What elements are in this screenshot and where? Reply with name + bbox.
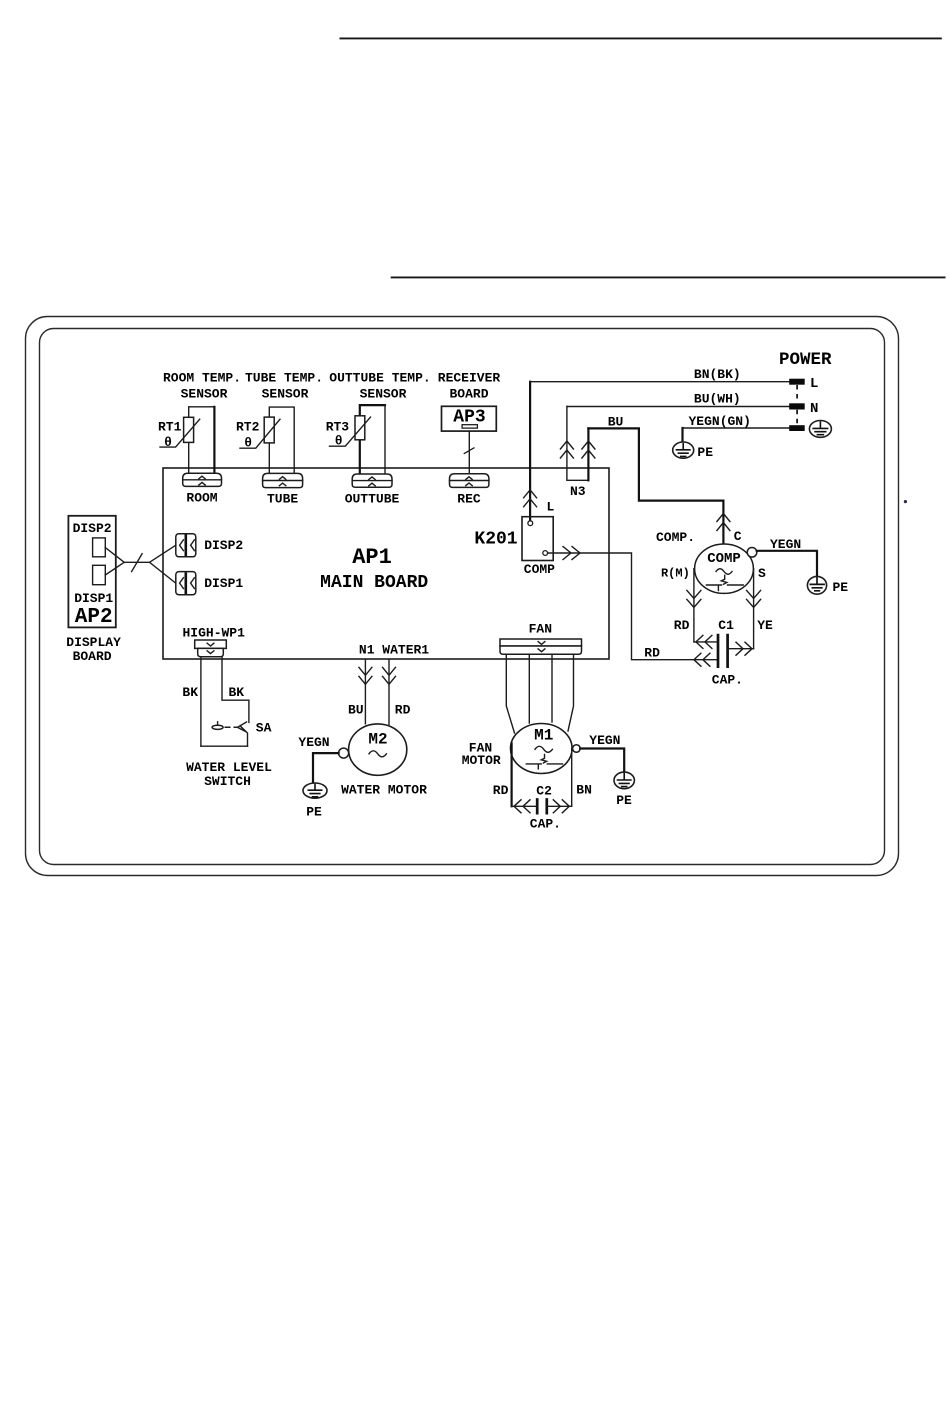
wire loop sensor RT1 (189, 407, 215, 473)
svg-text:C2: C2 (536, 784, 552, 799)
svg-text:BOARD: BOARD (449, 387, 488, 402)
svg-text:C1: C1 (718, 618, 734, 633)
wire loop sensor RT2 (269, 407, 294, 473)
connector ROOM (183, 473, 222, 505)
svg-text:SENSOR: SENSOR (360, 387, 407, 402)
svg-text:MAIN BOARD: MAIN BOARD (320, 573, 428, 593)
label RD compressor leg (674, 618, 690, 633)
connector HIGH-WP1 (182, 626, 245, 657)
wire harness AP2 to mainboard (105, 545, 176, 583)
svg-text:L: L (810, 376, 818, 392)
svg-text:BN(BK): BN(BK) (694, 367, 741, 382)
svg-text:M2: M2 (368, 731, 387, 749)
svg-text:S: S (758, 566, 766, 581)
svg-text:BK: BK (228, 685, 244, 700)
water level switch SA (201, 720, 272, 746)
label FAN MOTOR (462, 741, 501, 769)
main board AP1 outline (163, 468, 609, 659)
svg-text:YE: YE (757, 618, 773, 633)
label YE (757, 618, 773, 633)
svg-text:BN: BN (576, 783, 592, 798)
svg-text:θ: θ (244, 436, 252, 451)
wire BK right from HIGH-WP1 (222, 657, 249, 723)
svg-text:θ: θ (335, 434, 343, 449)
label DISPLAY BOARD (66, 635, 121, 664)
wire BK left from HIGH-WP1 (182, 657, 201, 746)
receiver board AP3 (442, 406, 497, 431)
water motor M2 (339, 724, 407, 775)
svg-text:SENSOR: SENSOR (262, 387, 309, 402)
svg-text:COMP.: COMP. (656, 530, 695, 545)
svg-text:RECEIVER: RECEIVER (438, 371, 501, 386)
label N1 WATER1 (359, 643, 429, 658)
svg-text:PE: PE (697, 445, 713, 460)
svg-text:DISP2: DISP2 (204, 538, 243, 553)
thermistor RT2 (236, 417, 280, 450)
connector DISP2 on board (176, 534, 244, 557)
svg-text:DISP1: DISP1 (74, 591, 113, 606)
capacitor C2 (512, 784, 572, 815)
svg-text:RT2: RT2 (236, 420, 260, 435)
svg-text:FAN: FAN (529, 622, 552, 637)
svg-text:DISP1: DISP1 (204, 576, 243, 591)
wire YEGN fan motor (580, 733, 624, 772)
wire S leg (747, 566, 766, 649)
svg-text:N1 WATER1: N1 WATER1 (359, 643, 429, 658)
capacitor C1 (694, 618, 754, 668)
connector TUBE (263, 473, 303, 506)
wire AP3 to REC (464, 431, 475, 474)
svg-text:AP2: AP2 (75, 606, 113, 629)
svg-text:N3: N3 (570, 484, 586, 499)
svg-text:PE: PE (306, 804, 322, 819)
svg-text:BU: BU (348, 703, 364, 718)
svg-text:YEGN: YEGN (589, 733, 620, 748)
thermistor RT3 (326, 416, 371, 449)
svg-text:C: C (734, 529, 742, 544)
wire BN(BK) (530, 367, 789, 382)
svg-text:BU: BU (608, 415, 624, 430)
display board AP2 (68, 516, 115, 629)
connector DISP1 on board (176, 572, 244, 595)
svg-text:TUBE: TUBE (267, 492, 298, 507)
ground PE fan motor (614, 772, 634, 808)
label ROOM TEMP. SENSOR (163, 371, 241, 402)
stray blue dot (904, 500, 907, 503)
svg-text:SWITCH: SWITCH (204, 774, 251, 789)
svg-text:WATER MOTOR: WATER MOTOR (341, 782, 427, 797)
top rule line 2 (391, 276, 946, 278)
ground PE below YEGN(GN) (673, 428, 713, 460)
svg-text:POWER: POWER (779, 350, 832, 370)
fan motor M1 (511, 724, 581, 774)
svg-text:DISP2: DISP2 (73, 521, 112, 536)
node N3 loop (560, 407, 595, 499)
terminal L (789, 376, 818, 392)
wire N1 to water motor (348, 660, 372, 724)
terminal N (789, 401, 818, 417)
svg-text:RT1: RT1 (158, 420, 182, 435)
ground PE water motor (303, 783, 327, 819)
label C (734, 529, 742, 544)
relay K201 (474, 517, 555, 577)
svg-text:RT3: RT3 (326, 420, 350, 435)
svg-text:YEGN: YEGN (298, 735, 329, 750)
wires FAN to fan motor (506, 654, 573, 733)
svg-text:BOARD: BOARD (73, 649, 112, 664)
svg-text:M1: M1 (534, 727, 553, 745)
svg-text:RD: RD (674, 618, 690, 633)
svg-text:MOTOR: MOTOR (462, 753, 501, 768)
connector FAN (500, 622, 582, 655)
svg-text:TUBE TEMP.: TUBE TEMP. (245, 371, 323, 386)
svg-text:OUTTUBE TEMP.: OUTTUBE TEMP. (329, 371, 430, 386)
label RD relay wire (644, 645, 660, 660)
svg-text:HIGH-WP1: HIGH-WP1 (182, 626, 245, 641)
top rule line 1 (340, 37, 942, 39)
svg-text:K201: K201 (474, 530, 517, 550)
label TUBE TEMP. SENSOR (245, 371, 323, 402)
connector OUTTUBE (345, 474, 400, 507)
svg-text:ROOM: ROOM (186, 491, 217, 506)
svg-text:COMP: COMP (524, 562, 555, 577)
wire RD fan motor leg (493, 743, 512, 806)
thermistor RT1 (158, 417, 200, 450)
label CAP. C2 (530, 817, 561, 832)
svg-text:PE: PE (616, 793, 632, 808)
wire BN fan motor leg (572, 749, 592, 807)
svg-text:BK: BK (182, 685, 198, 700)
svg-text:YEGN: YEGN (770, 537, 801, 552)
label CAP. C1 (712, 672, 743, 687)
svg-text:YEGN(GN): YEGN(GN) (688, 414, 750, 429)
svg-text:AP1: AP1 (352, 545, 392, 570)
svg-text:L: L (546, 500, 554, 515)
svg-text:WATER LEVEL: WATER LEVEL (186, 760, 272, 775)
svg-text:COMP: COMP (707, 551, 741, 567)
terminal PE power (789, 425, 805, 431)
label POWER (779, 350, 832, 370)
wire BU from N3 to compressor C (588, 415, 730, 544)
terminal and wire YEGN compressor (747, 537, 817, 577)
label COMP. (656, 530, 695, 545)
wire L from power to K201 (524, 382, 555, 521)
wire YEGN(GN) (683, 414, 790, 429)
wire YEGN water motor (298, 735, 338, 783)
svg-text:PE: PE (832, 580, 848, 595)
connector REC (450, 474, 489, 507)
label RECEIVER BOARD (438, 371, 501, 402)
wire K201 COMP output (548, 547, 718, 660)
svg-text:DISPLAY: DISPLAY (66, 635, 121, 650)
svg-text:RD: RD (644, 645, 660, 660)
label AP1 MAIN BOARD (320, 545, 428, 593)
svg-text:BU(WH): BU(WH) (694, 392, 741, 407)
svg-text:R(M): R(M) (661, 566, 690, 580)
label OUTTUBE TEMP. SENSOR (329, 371, 430, 402)
svg-text:SA: SA (256, 720, 272, 735)
dashed link between terminals (796, 385, 798, 425)
compressor COMP (695, 544, 754, 593)
svg-text:N: N (810, 401, 818, 417)
outer border frame (26, 317, 899, 876)
svg-text:RD: RD (493, 783, 509, 798)
svg-text:CAP.: CAP. (712, 672, 743, 687)
wire BU(WH) (567, 392, 789, 407)
svg-text:OUTTUBE: OUTTUBE (345, 492, 400, 507)
svg-text:θ: θ (164, 435, 172, 450)
wire loop sensor RT3 (360, 405, 385, 474)
svg-text:ROOM TEMP.: ROOM TEMP. (163, 371, 241, 386)
wire R(M) leg (661, 566, 701, 642)
ground symbol power PE right (809, 421, 831, 438)
ground PE compressor (807, 576, 848, 594)
svg-text:SENSOR: SENSOR (181, 387, 228, 402)
inner border frame (40, 329, 885, 865)
svg-text:RD: RD (395, 703, 411, 718)
wire WATER1 to water motor (383, 660, 411, 725)
label WATER MOTOR (341, 782, 427, 797)
label WATER LEVEL SWITCH (186, 760, 272, 789)
svg-text:REC: REC (457, 492, 481, 507)
svg-text:CAP.: CAP. (530, 817, 561, 832)
